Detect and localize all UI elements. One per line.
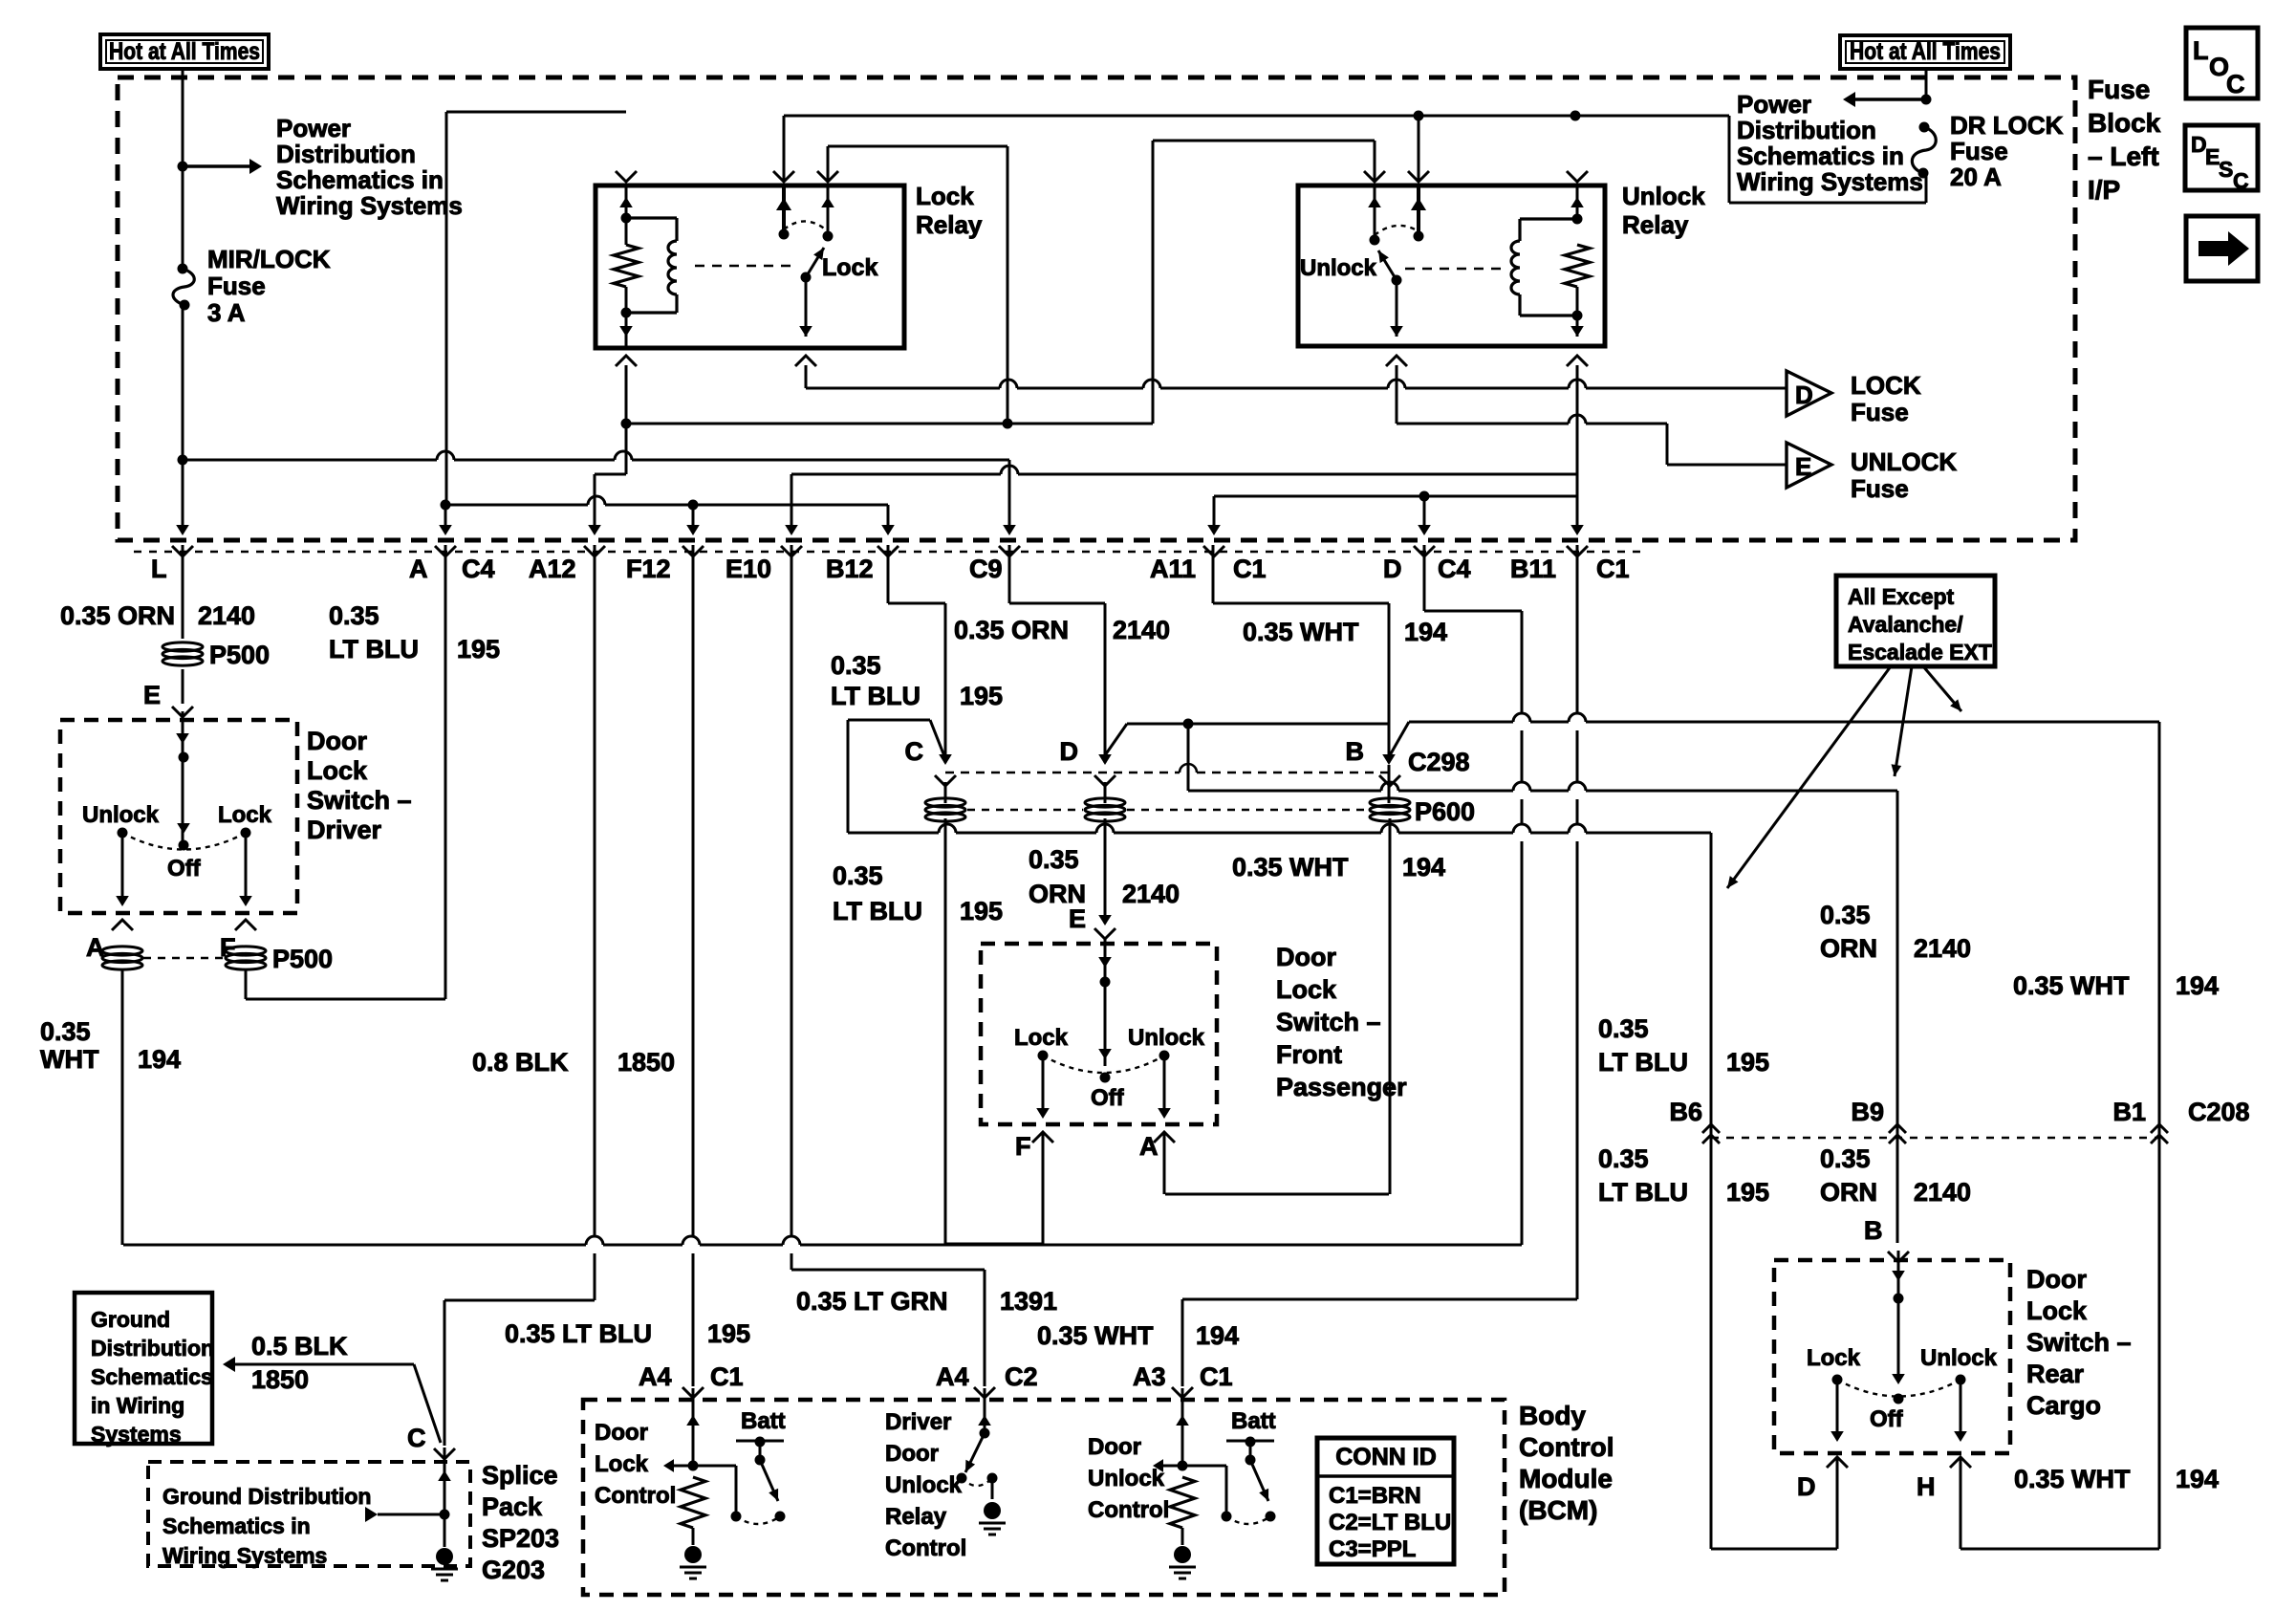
svg-text:SP203: SP203 xyxy=(482,1524,559,1553)
svg-text:Lock: Lock xyxy=(218,802,272,828)
svg-text:P500: P500 xyxy=(209,641,270,669)
svg-text:0.35: 0.35 xyxy=(329,601,379,630)
svg-text:0.35 LT BLU: 0.35 LT BLU xyxy=(505,1319,652,1348)
svg-text:2140: 2140 xyxy=(1122,880,1180,908)
svg-text:Unlock: Unlock xyxy=(1088,1466,1165,1491)
svg-text:195: 195 xyxy=(1726,1178,1769,1207)
svg-text:195: 195 xyxy=(960,897,1003,925)
svg-text:E: E xyxy=(1795,452,1811,481)
svg-text:0.35: 0.35 xyxy=(833,861,883,890)
svg-text:C2: C2 xyxy=(1005,1362,1038,1391)
svg-text:Door: Door xyxy=(2026,1265,2087,1294)
svg-text:Off: Off xyxy=(1091,1085,1125,1111)
svg-text:0.35: 0.35 xyxy=(40,1017,91,1046)
svg-text:Batt: Batt xyxy=(741,1408,786,1434)
svg-text:3 A: 3 A xyxy=(207,298,246,327)
svg-text:LT BLU: LT BLU xyxy=(1598,1048,1688,1077)
svg-text:Block: Block xyxy=(2088,108,2161,138)
svg-text:Control: Control xyxy=(885,1535,966,1561)
svg-text:Avalanche/: Avalanche/ xyxy=(1848,612,1963,637)
svg-text:A4: A4 xyxy=(936,1362,969,1391)
svg-text:1850: 1850 xyxy=(617,1048,675,1077)
svg-text:(BCM): (BCM) xyxy=(1519,1495,1597,1525)
svg-text:ORN: ORN xyxy=(1820,934,1877,963)
svg-text:Unlock: Unlock xyxy=(1300,255,1377,281)
svg-text:195: 195 xyxy=(457,635,500,664)
svg-text:C1: C1 xyxy=(1200,1362,1233,1391)
svg-text:LT BLU: LT BLU xyxy=(833,897,922,925)
svg-text:Off: Off xyxy=(1870,1406,1904,1432)
svg-text:Control: Control xyxy=(1088,1497,1169,1523)
svg-text:195: 195 xyxy=(1726,1048,1769,1077)
svg-text:A: A xyxy=(1139,1132,1159,1161)
svg-text:ORN: ORN xyxy=(1820,1178,1877,1207)
svg-text:Fuse: Fuse xyxy=(1851,474,1909,503)
svg-text:Rear: Rear xyxy=(2026,1360,2085,1388)
svg-text:Door: Door xyxy=(307,727,367,755)
svg-text:C: C xyxy=(905,737,924,766)
svg-text:Driver: Driver xyxy=(885,1409,951,1435)
svg-text:2140: 2140 xyxy=(1914,934,1971,963)
svg-text:Distribution: Distribution xyxy=(1737,116,1876,144)
svg-text:Ground: Ground xyxy=(91,1307,170,1332)
svg-text:A12: A12 xyxy=(529,555,576,583)
svg-text:Systems: Systems xyxy=(91,1422,182,1447)
svg-text:195: 195 xyxy=(960,682,1003,710)
svg-text:0.35: 0.35 xyxy=(1820,901,1871,929)
svg-text:Lock: Lock xyxy=(916,182,974,210)
svg-text:0.35: 0.35 xyxy=(1029,845,1079,874)
svg-text:C2=LT BLU: C2=LT BLU xyxy=(1329,1510,1451,1535)
svg-text:C1: C1 xyxy=(1233,555,1267,583)
svg-text:Wiring Systems: Wiring Systems xyxy=(276,191,463,220)
svg-text:Body: Body xyxy=(1519,1401,1586,1430)
svg-text:F: F xyxy=(1015,1132,1031,1161)
svg-text:0.5 BLK: 0.5 BLK xyxy=(251,1332,348,1361)
svg-text:Relay: Relay xyxy=(916,210,983,239)
svg-text:H: H xyxy=(1917,1472,1936,1501)
svg-text:Relay: Relay xyxy=(1622,210,1689,239)
svg-text:Schematics in: Schematics in xyxy=(162,1513,311,1538)
svg-text:Ground Distribution: Ground Distribution xyxy=(162,1484,371,1509)
svg-text:Hot at All Times: Hot at All Times xyxy=(109,38,260,65)
svg-text:Lock: Lock xyxy=(1014,1025,1069,1051)
svg-text:Unlock: Unlock xyxy=(1920,1345,1998,1371)
svg-text:D: D xyxy=(1795,381,1813,409)
svg-text:LOCK: LOCK xyxy=(1851,371,1921,400)
svg-text:Lock: Lock xyxy=(1276,975,1337,1004)
svg-text:G203: G203 xyxy=(482,1556,545,1584)
svg-text:Unlock: Unlock xyxy=(1128,1025,1205,1051)
svg-text:Fuse: Fuse xyxy=(1950,137,2008,165)
svg-text:LT BLU: LT BLU xyxy=(329,635,419,664)
svg-text:1850: 1850 xyxy=(251,1365,309,1394)
svg-text:Door: Door xyxy=(885,1441,939,1467)
svg-text:Splice: Splice xyxy=(482,1461,558,1490)
svg-text:C4: C4 xyxy=(462,555,495,583)
svg-text:B6: B6 xyxy=(1669,1098,1702,1126)
svg-text:194: 194 xyxy=(2176,971,2219,1000)
svg-text:C298: C298 xyxy=(1408,748,1470,776)
svg-text:All Except: All Except xyxy=(1848,584,1955,609)
svg-text:LT BLU: LT BLU xyxy=(831,682,921,710)
svg-text:C: C xyxy=(2233,168,2249,193)
svg-text:LT BLU: LT BLU xyxy=(1598,1178,1688,1207)
svg-text:ORN: ORN xyxy=(1029,880,1086,908)
svg-text:E10: E10 xyxy=(726,555,771,583)
svg-text:Front: Front xyxy=(1276,1040,1342,1069)
svg-text:Lock: Lock xyxy=(822,254,877,281)
svg-text:0.35 ORN: 0.35 ORN xyxy=(954,616,1069,644)
svg-text:0.35 WHT: 0.35 WHT xyxy=(1037,1321,1154,1350)
svg-text:CONN ID: CONN ID xyxy=(1335,1444,1437,1470)
svg-text:194: 194 xyxy=(2176,1465,2219,1493)
svg-text:A4: A4 xyxy=(639,1362,672,1391)
svg-text:Hot at All Times: Hot at All Times xyxy=(1850,38,2001,65)
svg-text:194: 194 xyxy=(138,1045,181,1074)
svg-text:A3: A3 xyxy=(1133,1362,1166,1391)
svg-text:Escalade EXT: Escalade EXT xyxy=(1848,640,1992,664)
svg-text:Lock: Lock xyxy=(307,756,368,785)
svg-text:Fuse: Fuse xyxy=(207,272,266,300)
svg-text:C208: C208 xyxy=(2188,1098,2250,1126)
svg-text:D: D xyxy=(1060,737,1079,766)
svg-text:in Wiring: in Wiring xyxy=(91,1393,184,1418)
svg-text:Unlock: Unlock xyxy=(885,1472,963,1498)
svg-text:Schematics in: Schematics in xyxy=(1737,142,1904,170)
svg-text:Passenger: Passenger xyxy=(1276,1073,1407,1101)
svg-text:Distribution: Distribution xyxy=(91,1336,214,1361)
svg-text:Lock: Lock xyxy=(595,1451,649,1477)
svg-text:F12: F12 xyxy=(626,555,671,583)
svg-text:0.8 BLK: 0.8 BLK xyxy=(472,1048,569,1077)
svg-text:B11: B11 xyxy=(1510,555,1556,583)
svg-text:Pack: Pack xyxy=(482,1492,543,1521)
svg-text:C1=BRN: C1=BRN xyxy=(1329,1483,1421,1509)
svg-text:194: 194 xyxy=(1196,1321,1239,1350)
svg-text:1391: 1391 xyxy=(1000,1287,1057,1316)
svg-text:MIR/LOCK: MIR/LOCK xyxy=(207,245,331,273)
svg-text:2140: 2140 xyxy=(198,601,255,630)
svg-text:Unlock: Unlock xyxy=(1622,182,1705,210)
svg-text:Cargo: Cargo xyxy=(2026,1391,2101,1420)
svg-text:Door: Door xyxy=(595,1420,648,1446)
svg-text:Driver: Driver xyxy=(307,816,382,844)
svg-text:P500: P500 xyxy=(272,945,333,973)
svg-text:Switch –: Switch – xyxy=(2026,1328,2132,1357)
svg-text:Power: Power xyxy=(1737,90,1811,119)
svg-text:Lock: Lock xyxy=(2026,1296,2088,1325)
svg-text:B1: B1 xyxy=(2112,1098,2146,1126)
svg-text:E: E xyxy=(1069,904,1086,933)
svg-text:D: D xyxy=(1383,555,1402,583)
svg-text:Lock: Lock xyxy=(1807,1345,1861,1371)
svg-text:A11: A11 xyxy=(1150,555,1196,583)
svg-text:C9: C9 xyxy=(969,555,1003,583)
svg-text:Relay: Relay xyxy=(885,1504,947,1530)
svg-text:Door: Door xyxy=(1276,943,1336,971)
svg-text:Control: Control xyxy=(595,1483,676,1509)
svg-text:Control: Control xyxy=(1519,1432,1614,1462)
svg-text:Wiring Systems: Wiring Systems xyxy=(162,1543,327,1568)
svg-text:0.35 WHT: 0.35 WHT xyxy=(2013,971,2130,1000)
svg-text:C1: C1 xyxy=(710,1362,744,1391)
svg-text:195: 195 xyxy=(707,1319,750,1348)
svg-text:0.35: 0.35 xyxy=(1598,1144,1649,1173)
svg-text:Schematics in: Schematics in xyxy=(276,165,444,194)
svg-text:B: B xyxy=(1864,1216,1883,1245)
svg-text:194: 194 xyxy=(1402,853,1445,882)
svg-text:Schematics: Schematics xyxy=(91,1364,213,1389)
svg-text:B12: B12 xyxy=(826,555,874,583)
svg-text:194: 194 xyxy=(1404,618,1447,646)
svg-text:Fuse: Fuse xyxy=(2088,75,2150,104)
svg-text:Power: Power xyxy=(276,114,351,142)
svg-text:C3=PPL: C3=PPL xyxy=(1329,1536,1416,1562)
svg-text:Batt: Batt xyxy=(1231,1408,1276,1434)
svg-text:C: C xyxy=(2226,70,2245,98)
svg-text:WHT: WHT xyxy=(40,1045,99,1074)
svg-text:0.35: 0.35 xyxy=(1598,1014,1649,1043)
svg-text:D: D xyxy=(1797,1472,1816,1501)
svg-text:L: L xyxy=(151,555,167,583)
svg-text:Distribution: Distribution xyxy=(276,140,416,168)
svg-text:0.35 WHT: 0.35 WHT xyxy=(2014,1465,2131,1493)
svg-text:0.35 ORN: 0.35 ORN xyxy=(60,601,175,630)
svg-text:C4: C4 xyxy=(1438,555,1471,583)
svg-text:Module: Module xyxy=(1519,1464,1613,1493)
svg-text:B: B xyxy=(1346,737,1365,766)
svg-text:B9: B9 xyxy=(1851,1098,1884,1126)
svg-text:Door: Door xyxy=(1088,1434,1141,1460)
svg-text:L: L xyxy=(2193,36,2209,65)
svg-text:DR LOCK: DR LOCK xyxy=(1950,111,2064,140)
svg-text:A: A xyxy=(409,555,428,583)
svg-text:0.35: 0.35 xyxy=(831,651,881,680)
svg-text:I/P: I/P xyxy=(2088,175,2120,205)
svg-text:2140: 2140 xyxy=(1113,616,1170,644)
svg-text:Fuse: Fuse xyxy=(1851,398,1909,426)
svg-text:2140: 2140 xyxy=(1914,1178,1971,1207)
svg-text:0.35 WHT: 0.35 WHT xyxy=(1232,853,1349,882)
svg-text:0.35 LT GRN: 0.35 LT GRN xyxy=(796,1287,948,1316)
svg-text:P600: P600 xyxy=(1415,797,1475,826)
svg-text:– Left: – Left xyxy=(2088,142,2159,171)
svg-text:0.35 WHT: 0.35 WHT xyxy=(1243,618,1359,646)
svg-text:20 A: 20 A xyxy=(1950,163,2002,191)
svg-text:Unlock: Unlock xyxy=(82,802,160,828)
svg-text:UNLOCK: UNLOCK xyxy=(1851,447,1957,476)
svg-text:Switch –: Switch – xyxy=(307,786,412,815)
svg-text:Off: Off xyxy=(167,856,202,882)
svg-text:C1: C1 xyxy=(1596,555,1630,583)
svg-text:0.35: 0.35 xyxy=(1820,1144,1871,1173)
svg-text:Switch –: Switch – xyxy=(1276,1008,1381,1036)
svg-text:Wiring Systems: Wiring Systems xyxy=(1737,167,1923,196)
svg-text:C: C xyxy=(407,1424,426,1452)
svg-text:S: S xyxy=(2219,157,2233,182)
svg-text:E: E xyxy=(143,681,161,709)
